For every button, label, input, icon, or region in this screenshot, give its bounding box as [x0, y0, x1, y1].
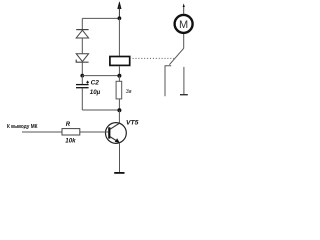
svg-text:R: R [66, 122, 71, 128]
svg-text:10µ: 10µ [90, 89, 101, 96]
svg-text:К выводу МК: К выводу МК [7, 124, 38, 130]
svg-text:M: M [179, 19, 188, 31]
svg-text:VT5: VT5 [126, 119, 139, 126]
svg-text:3в: 3в [126, 89, 132, 95]
svg-text:10k: 10k [65, 137, 76, 144]
svg-text:C2: C2 [91, 79, 100, 86]
